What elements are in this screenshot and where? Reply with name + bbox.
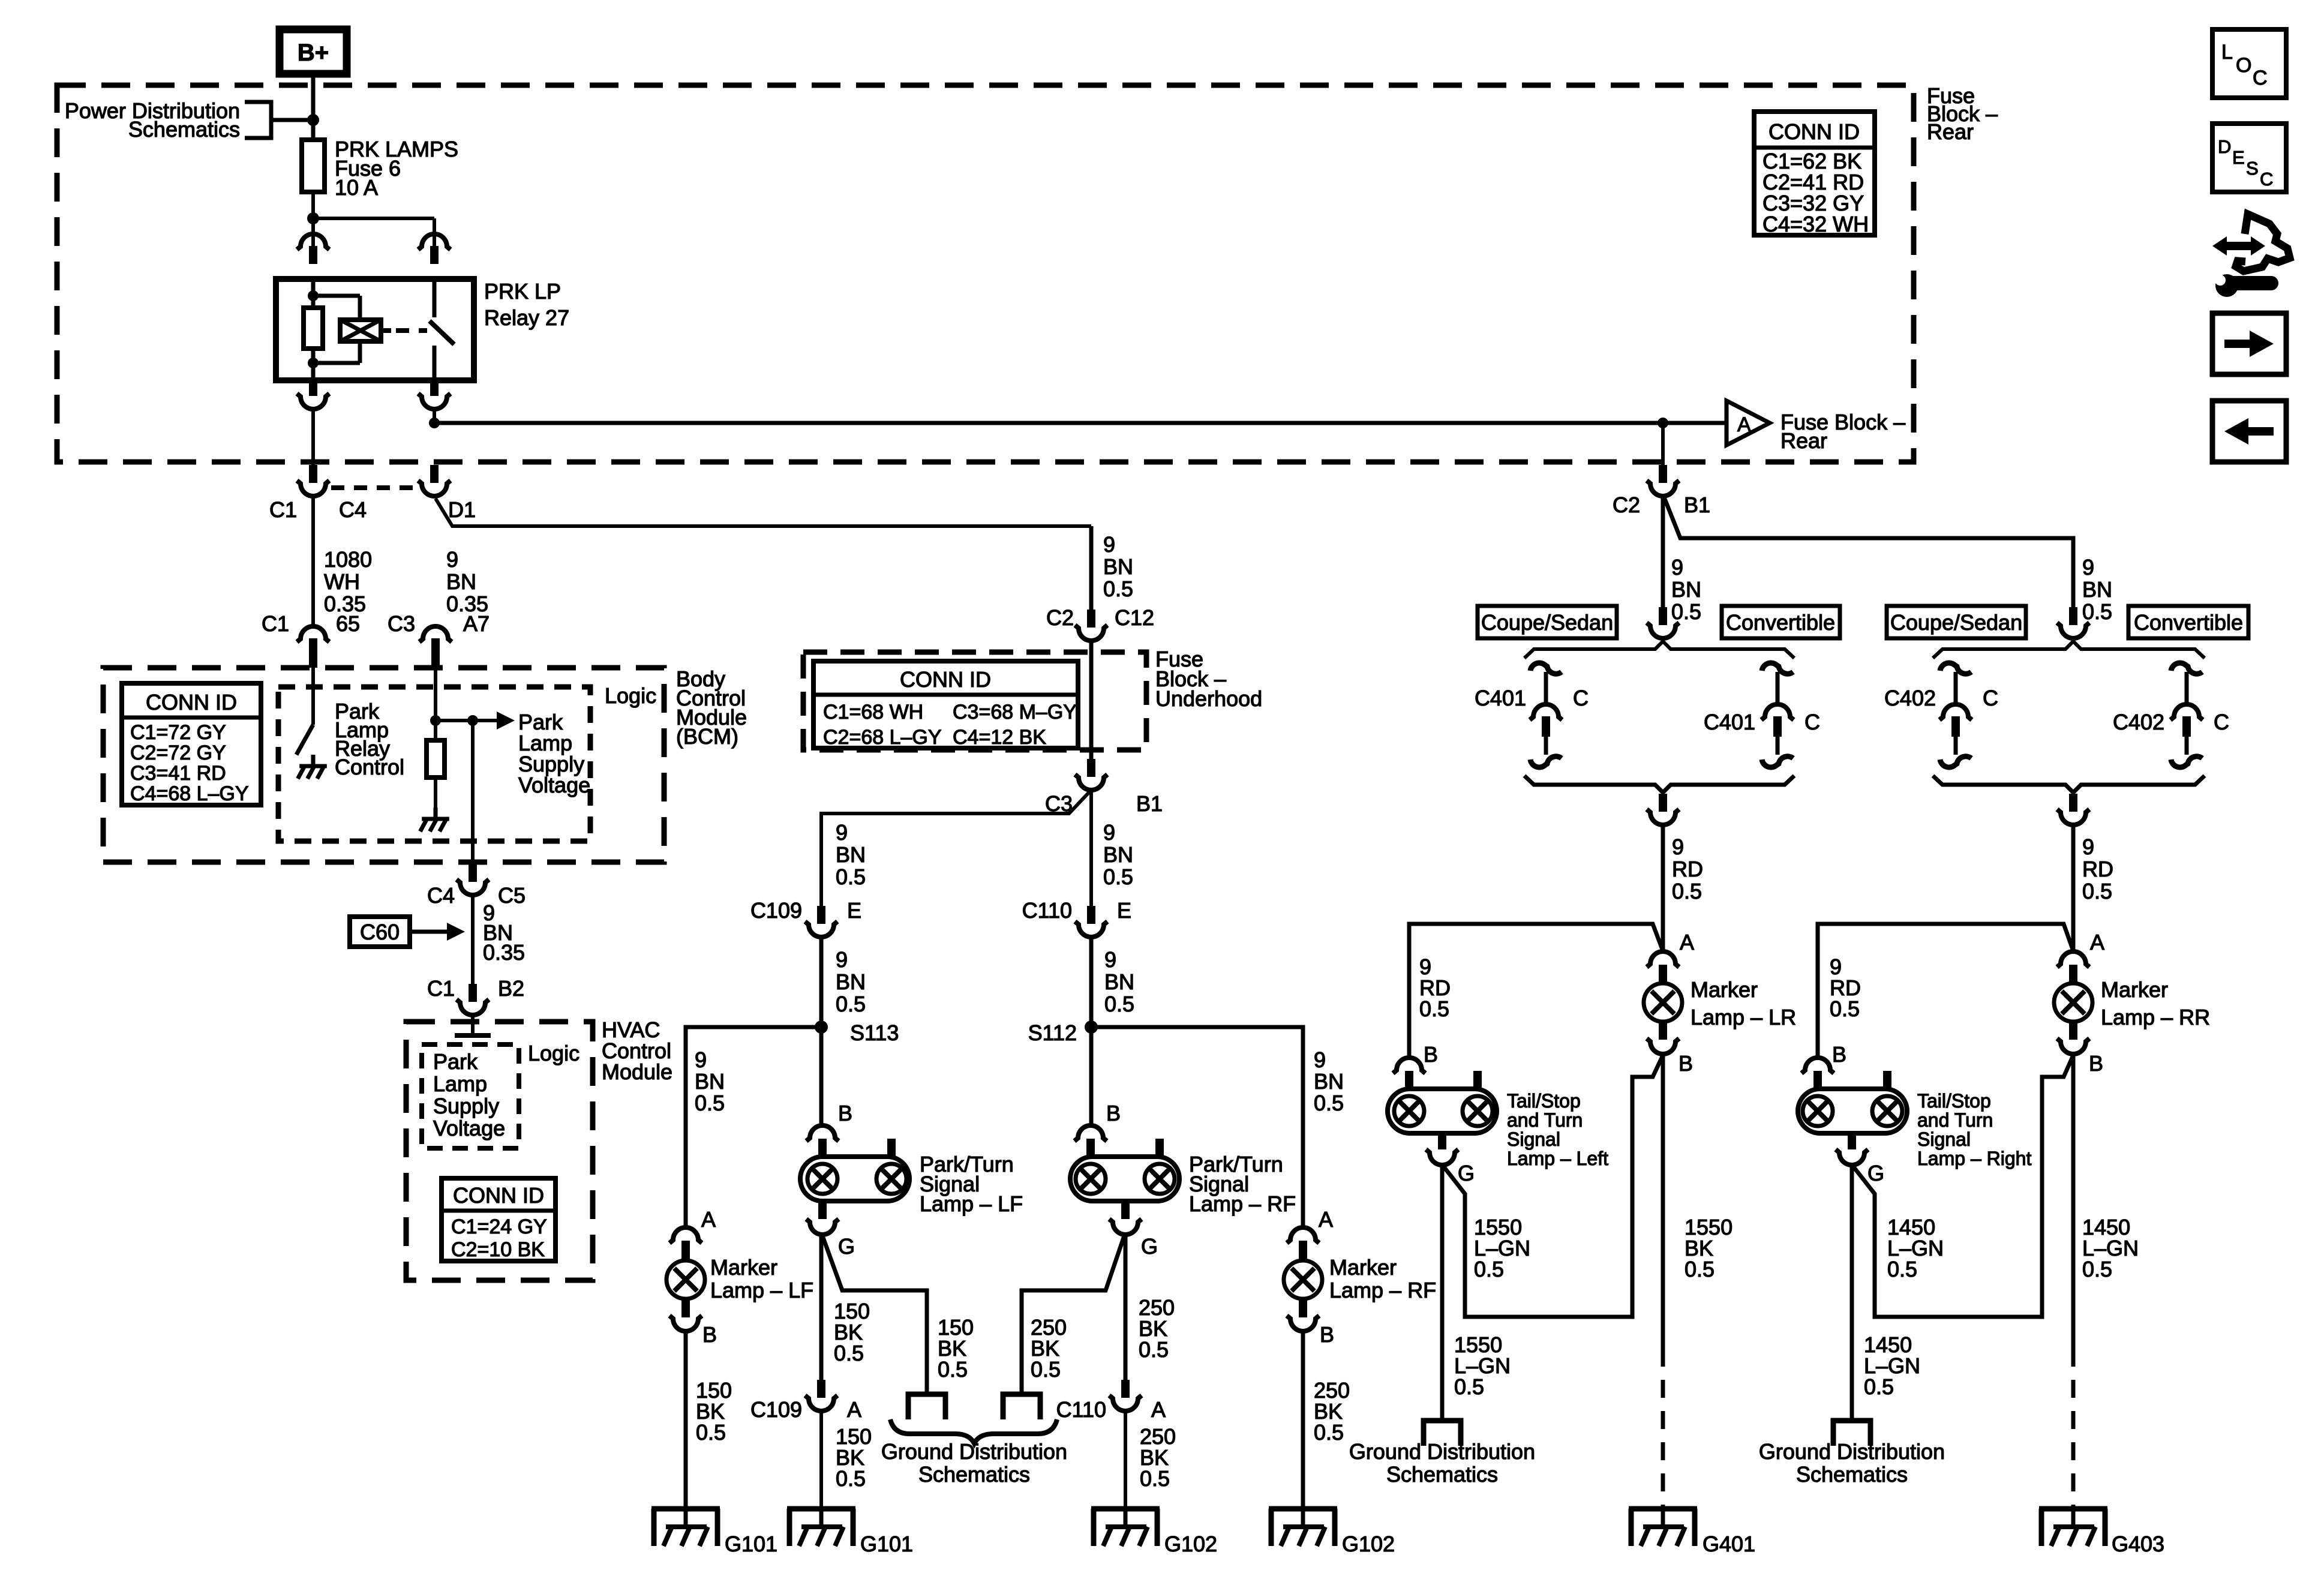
bracket ground distribution (tail right): [1833, 1421, 1870, 1446]
svg-text:Signal: Signal: [1917, 1128, 1971, 1150]
bracket ground distribution (tail left): [1424, 1421, 1461, 1446]
svg-text:BN: BN: [1103, 842, 1133, 867]
wire S113 to marker LF: [686, 1027, 821, 1229]
svg-text:B1: B1: [1136, 791, 1163, 816]
marker lamp RF: [1284, 1207, 1436, 1347]
svg-text:9: 9: [1314, 1047, 1326, 1072]
label: circuit 250 BK 0.5 (to G102): [1140, 1424, 1176, 1491]
wire marker RR to G403: [2071, 1056, 2076, 1509]
triangle pointer A: [1727, 401, 1770, 445]
label: Fuse Block - Rear (top right): [1927, 83, 1998, 144]
svg-text:B: B: [2089, 1051, 2103, 1076]
svg-text:C: C: [2260, 169, 2273, 190]
connector C1 pin 65: [262, 611, 360, 668]
connector C3 pin A7: [388, 611, 490, 668]
relay coil loop wires: [313, 296, 360, 363]
label: circuit 150 BK 0.5 (marker LF): [696, 1378, 732, 1445]
wire B+ down to fuse: [311, 74, 316, 140]
svg-text:B: B: [1320, 1322, 1334, 1347]
HVAC control module dashed box: [406, 1022, 593, 1280]
svg-text:Lamp – LR: Lamp – LR: [1691, 1005, 1796, 1029]
svg-text:Schematics: Schematics: [1386, 1462, 1498, 1487]
svg-text:Lamp – LF: Lamp – LF: [710, 1278, 813, 1302]
wire tail-left G to ground distribution: [1440, 1165, 1445, 1421]
svg-text:C: C: [1573, 686, 1589, 710]
sidebar icon diagnostic (arrows and wrench): [2211, 214, 2290, 297]
svg-text:0.5: 0.5: [2082, 1257, 2112, 1281]
label: Logic (HVAC): [528, 1041, 580, 1065]
svg-text:S112: S112: [1028, 1020, 1077, 1045]
svg-text:Ground Distribution: Ground Distribution: [881, 1439, 1067, 1464]
svg-text:C1=72 GY: C1=72 GY: [130, 721, 226, 744]
svg-text:9: 9: [1104, 947, 1116, 972]
bracket to power distribution: [245, 102, 310, 138]
svg-text:E: E: [2232, 147, 2245, 168]
svg-text:RD: RD: [2082, 857, 2113, 881]
svg-text:Ground Distribution: Ground Distribution: [1759, 1439, 1945, 1464]
wire down to marker LR: [1661, 825, 1665, 954]
svg-text:9: 9: [836, 820, 848, 845]
svg-text:0.5: 0.5: [836, 864, 866, 889]
inline connector C401 (coupe/sedan): [1475, 663, 1589, 767]
svg-text:C1=68 WH: C1=68 WH: [823, 701, 923, 724]
connector C109 pin A: [750, 1380, 861, 1422]
arrow park lamp supply voltage: [497, 712, 515, 730]
wire marker RF to G102: [1301, 1331, 1305, 1509]
CONN ID table - HVAC: [442, 1178, 556, 1261]
wire BCM to HVAC: [471, 895, 475, 984]
wire feed tail lamp left: [1409, 924, 1663, 1059]
bracket to ground distribution (C110): [1003, 1394, 1040, 1419]
wire C110 to S112 to lamp: [1089, 937, 1094, 1127]
sidebar icon arrow left: [2212, 401, 2286, 462]
svg-text:Convertible: Convertible: [1726, 610, 1835, 635]
wire relay out right to junction: [433, 410, 436, 423]
wire tail-left G loop to marker LR B: [1443, 1055, 1663, 1317]
wire fuse to relay pins: [313, 192, 434, 247]
label: circuit 9 BN 0.5 (C2): [1671, 555, 1701, 624]
connector C1 / B2: [427, 976, 524, 1015]
label: circuit 150 BK 0.5 (grd dist): [938, 1315, 974, 1382]
svg-text:Marker: Marker: [2101, 977, 2168, 1002]
sidebar icon DESC: [2212, 124, 2286, 192]
connector C4 / C5: [427, 864, 526, 908]
wire tail-right G loop to marker RR B: [1853, 1055, 2073, 1317]
svg-text:Schematics: Schematics: [1796, 1462, 1908, 1487]
park lamp relay control switch: [296, 668, 313, 755]
label: circuit 1550 L-GN 0.5 (loop): [1474, 1215, 1530, 1281]
wire marker LR to G401: [1661, 1056, 1665, 1509]
svg-text:C3: C3: [388, 611, 415, 636]
svg-text:L: L: [2221, 41, 2233, 64]
svg-text:C1=24 GY: C1=24 GY: [451, 1215, 547, 1238]
relay coil out wire: [311, 363, 316, 380]
wire C109 to S113 to lamp: [819, 937, 824, 1127]
junction dot (supply out): [467, 715, 478, 726]
svg-text:Underhood: Underhood: [1155, 686, 1262, 711]
BCM outer dashed box: [103, 668, 664, 862]
svg-text:C4=68 L–GY: C4=68 L–GY: [130, 782, 249, 805]
svg-text:C4: C4: [339, 497, 367, 522]
relay coil feed wire: [311, 279, 316, 299]
wire supply voltage down: [471, 721, 475, 864]
label: circuit 1450 L-GN 0.5 (marker RR): [2082, 1215, 2139, 1281]
svg-text:C12: C12: [1115, 605, 1154, 630]
svg-text:G102: G102: [1342, 1532, 1395, 1556]
svg-text:A: A: [2090, 930, 2104, 954]
wire into HVAC terminal: [455, 1015, 491, 1035]
svg-text:C2=68 L–GY: C2=68 L–GY: [823, 726, 942, 749]
svg-text:BN: BN: [695, 1069, 725, 1094]
svg-text:Tail/Stop: Tail/Stop: [1917, 1090, 1991, 1112]
svg-text:C: C: [2253, 67, 2268, 89]
svg-text:Relay 27: Relay 27: [484, 305, 569, 330]
svg-text:PRK LP: PRK LP: [484, 279, 561, 304]
svg-text:Logic: Logic: [528, 1041, 580, 1065]
svg-text:D1: D1: [448, 497, 476, 522]
HVAC logic inner dashed box: [422, 1044, 519, 1148]
svg-text:Module: Module: [602, 1059, 672, 1084]
curly brace ground distribution: [890, 1419, 1057, 1443]
relay 27 top pin connectors: [297, 234, 451, 264]
svg-text:9: 9: [1672, 834, 1684, 859]
svg-text:B2: B2: [498, 976, 524, 1001]
svg-text:0.5: 0.5: [1103, 864, 1133, 889]
C60 reference box: [350, 917, 465, 947]
ground G101 (marker LF): [651, 1509, 777, 1556]
svg-text:9: 9: [1103, 820, 1115, 845]
wire LF lamp G to ground distribution: [822, 1236, 927, 1394]
label: circuit 9 BN 0.5 (right drop): [1103, 820, 1133, 889]
svg-text:0.5: 0.5: [1419, 996, 1449, 1021]
svg-text:B+: B+: [298, 40, 329, 66]
junction dot below fuse: [307, 212, 319, 224]
svg-text:G102: G102: [1164, 1532, 1217, 1556]
wire 1080 WH to BCM: [311, 497, 315, 625]
svg-text:G: G: [1141, 1234, 1158, 1259]
ground G401: [1629, 1509, 1755, 1556]
connector C109 pin E: [750, 898, 861, 937]
svg-text:G403: G403: [2112, 1532, 2164, 1556]
svg-text:0.5: 0.5: [1474, 1257, 1504, 1281]
svg-text:10 A: 10 A: [335, 175, 378, 200]
label: circuit 9 BN 0.5 (to S113): [836, 947, 866, 1016]
connector C3 / B1 (underhood): [1045, 759, 1163, 816]
relay junction dot top: [308, 290, 319, 301]
svg-text:C: C: [1983, 686, 1998, 710]
split top line (right pair): [1933, 607, 2205, 658]
relay coil winding box: [340, 320, 391, 341]
label: circuit 9 RD 0.5 (right): [2082, 834, 2113, 903]
svg-text:Control: Control: [335, 755, 404, 779]
wire relay out left: [311, 410, 315, 465]
svg-text:9: 9: [1103, 532, 1115, 557]
svg-text:and Turn: and Turn: [1507, 1109, 1583, 1131]
wire D1 jog to underhood: [436, 499, 1091, 611]
svg-text:Coupe/Sedan: Coupe/Sedan: [1890, 610, 2022, 635]
label: circuit 1550 L-GN 0.5 (to grd dist): [1454, 1332, 1511, 1399]
label: circuit 150 BK 0.5 (above C109-A): [834, 1299, 870, 1365]
svg-text:C109: C109: [750, 898, 802, 923]
label: Fuse Block - Rear (at A): [1780, 410, 1905, 453]
svg-text:(BCM): (BCM): [676, 724, 738, 749]
junction dot at C2 drop: [1658, 418, 1668, 428]
label: circuit 9 BN 0.35 (BCM-HVAC): [483, 900, 525, 965]
svg-text:C2: C2: [1613, 493, 1640, 517]
svg-text:C402: C402: [1884, 686, 1936, 710]
marker lamp LF: [666, 1207, 813, 1347]
wire C3 into logic: [434, 668, 437, 721]
svg-text:Lamp – Left: Lamp – Left: [1507, 1148, 1608, 1169]
svg-text:Rear: Rear: [1927, 119, 1974, 144]
wire C110-A to G102: [1124, 1411, 1127, 1509]
svg-text:S: S: [2246, 158, 2259, 179]
bracket to ground distribution (C109): [908, 1394, 945, 1419]
svg-text:CONN ID: CONN ID: [1768, 119, 1860, 144]
label: circuit 1550 BK 0.5: [1685, 1215, 1733, 1281]
label: Ground Distribution Schematics (center): [881, 1439, 1067, 1487]
label: circuit 1080 WH 0.35: [324, 547, 372, 616]
svg-text:C401: C401: [1704, 710, 1755, 734]
split bottom line (right pair): [1933, 776, 2205, 825]
svg-text:Coupe/Sedan: Coupe/Sedan: [1481, 610, 1613, 635]
connector C110 pin A: [1056, 1380, 1166, 1422]
label: Park Lamp Relay Control: [335, 699, 404, 779]
svg-text:D: D: [2218, 136, 2231, 157]
wire tail-right G to ground distribution: [1850, 1165, 1854, 1421]
svg-text:WH: WH: [324, 569, 360, 594]
sidebar icon arrow right: [2212, 313, 2286, 374]
svg-text:0.5: 0.5: [836, 1466, 866, 1491]
power terminal B+: [280, 29, 347, 74]
svg-text:0.5: 0.5: [1140, 1466, 1170, 1491]
wire C109-A to G101: [819, 1411, 823, 1509]
svg-text:C1: C1: [427, 976, 455, 1001]
inline connector C402 (convertible): [2113, 663, 2229, 767]
svg-text:G101: G101: [860, 1532, 913, 1556]
svg-text:Ground Distribution: Ground Distribution: [1349, 1439, 1535, 1464]
relay coil resistor: [304, 299, 323, 358]
label: circuit 9 BN 0.5 (B1): [2082, 555, 2112, 624]
label: circuit 1450 L-GN 0.5 (loop): [1887, 1215, 1944, 1281]
svg-text:A: A: [1737, 413, 1751, 436]
svg-text:C4=32 WH: C4=32 WH: [1762, 212, 1869, 236]
label: HVAC Control Module: [602, 1017, 672, 1084]
svg-text:9: 9: [446, 547, 458, 572]
svg-text:0.35: 0.35: [483, 940, 525, 965]
svg-text:E: E: [847, 898, 861, 923]
svg-text:BN: BN: [446, 569, 476, 594]
connector C2 / C12: [1046, 605, 1154, 641]
svg-text:0.5: 0.5: [1104, 992, 1134, 1016]
svg-text:C402: C402: [2113, 710, 2164, 734]
wire B1 to right split: [1664, 497, 2073, 608]
variant box Convertible (right): [2128, 606, 2248, 638]
svg-text:C60: C60: [360, 920, 400, 944]
svg-text:0.5: 0.5: [938, 1357, 968, 1382]
fuse block underhood dashed box: [803, 652, 1146, 750]
svg-text:C4=12 BK: C4=12 BK: [953, 726, 1046, 749]
sidebar icon LOC: [2212, 29, 2286, 98]
svg-text:Convertible: Convertible: [2134, 610, 2243, 635]
CONN ID table - BCM: [122, 683, 261, 805]
wire LF lamp G to C109-A: [819, 1235, 824, 1380]
svg-text:A: A: [1680, 930, 1694, 954]
label: circuit 250 BK 0.5 (marker RF): [1314, 1378, 1350, 1445]
svg-text:0.5: 0.5: [1672, 879, 1702, 903]
svg-text:B: B: [1106, 1101, 1121, 1125]
svg-text:Lamp – Right: Lamp – Right: [1917, 1148, 2031, 1169]
BCM pull resistor: [427, 721, 445, 807]
svg-text:G101: G101: [725, 1532, 777, 1556]
svg-text:C110: C110: [1056, 1397, 1106, 1422]
wire feed tail lamp right: [1818, 924, 2073, 1059]
svg-text:0.5: 0.5: [1314, 1091, 1344, 1115]
svg-text:0.5: 0.5: [1830, 996, 1860, 1021]
wire C2 down to coupe/sedan split: [1661, 496, 1665, 608]
svg-text:C: C: [2214, 710, 2229, 734]
tail/stop and turn signal lamp - right: [1798, 1042, 2031, 1185]
svg-text:C2=10 BK: C2=10 BK: [451, 1238, 545, 1261]
relay PRK LP Relay 27 box: [276, 279, 474, 380]
connector row C1-C4 / D1: [269, 465, 476, 522]
label: circuit 9 BN 0.35 (D1): [446, 547, 488, 616]
svg-text:0.5: 0.5: [1864, 1374, 1894, 1399]
svg-text:G: G: [1867, 1161, 1884, 1185]
wire to C109 branch: [821, 791, 1090, 906]
svg-text:Signal: Signal: [1507, 1128, 1560, 1150]
inline connector C402 (coupe/sedan): [1884, 663, 1998, 767]
wire C12 into underhood box: [1089, 641, 1094, 759]
label: circuit 9 BN 0.5 (marker LF): [695, 1047, 725, 1115]
svg-text:0.5: 0.5: [1139, 1337, 1169, 1362]
label: circuit 9 BN 0.5 (marker RF): [1314, 1047, 1344, 1115]
svg-text:C3=68 M–GY: C3=68 M–GY: [953, 701, 1077, 724]
svg-text:BN: BN: [2082, 577, 2112, 602]
label: Park Lamp Supply Voltage (HVAC): [433, 1049, 505, 1140]
svg-text:9: 9: [2082, 834, 2094, 859]
svg-text:C401: C401: [1475, 686, 1526, 710]
svg-text:BN: BN: [836, 842, 866, 867]
svg-text:A: A: [1319, 1207, 1333, 1232]
label: circuit 9 BN 0.5 (to S112): [1104, 947, 1134, 1016]
CONN ID table - fuse block underhood: [813, 661, 1078, 749]
CONN ID table - fuse block rear: [1754, 112, 1875, 236]
label: circuit 9 RD 0.5 (tail left): [1419, 954, 1451, 1021]
relay 27 bottom pin connectors: [297, 380, 451, 409]
svg-text:A7: A7: [463, 611, 490, 636]
label: circuit 250 BK 0.5 (grd dist): [1031, 1315, 1067, 1382]
svg-text:B: B: [1424, 1042, 1438, 1067]
wire S112 to marker RF: [1091, 1027, 1303, 1229]
svg-text:RD: RD: [1672, 857, 1703, 881]
label: Ground Distribution Schematics (right): [1759, 1439, 1945, 1487]
wire marker LF to G101: [684, 1331, 688, 1509]
svg-text:0.5: 0.5: [1031, 1357, 1061, 1382]
park/turn signal lamp LF: [800, 1101, 1023, 1259]
svg-text:Lamp – RF: Lamp – RF: [1329, 1278, 1436, 1302]
svg-text:and Turn: and Turn: [1917, 1109, 1993, 1131]
label: Park Lamp Supply Voltage (BCM): [518, 710, 590, 797]
label: Fuse Block - Underhood: [1155, 647, 1262, 711]
svg-text:Lamp: Lamp: [433, 1071, 487, 1096]
svg-text:C3=41 RD: C3=41 RD: [130, 762, 226, 785]
svg-text:C2=72 GY: C2=72 GY: [130, 742, 226, 764]
relay junction dot bottom: [308, 358, 319, 368]
split top line (left pair): [1524, 607, 1794, 658]
fuse PRK LAMPS Fuse 6 10A: [302, 137, 458, 200]
svg-text:A: A: [1151, 1397, 1166, 1422]
svg-text:65: 65: [336, 611, 360, 636]
label: circuit 9 RD 0.5 (tail right): [1830, 954, 1861, 1021]
ground G102 (lamp): [1091, 1509, 1217, 1556]
label: Ground Distribution Schematics (left): [1349, 1439, 1535, 1487]
park/turn signal lamp RF: [1070, 1101, 1296, 1259]
svg-text:B: B: [1832, 1042, 1846, 1067]
svg-text:0.5: 0.5: [1685, 1257, 1715, 1281]
splice S112: [1028, 1020, 1098, 1045]
svg-text:9: 9: [1671, 555, 1683, 580]
long bus wire to fuse block rear: [434, 421, 1727, 425]
ground G101 (lamp): [787, 1509, 913, 1556]
svg-text:Rear: Rear: [1780, 428, 1827, 453]
label: circuit 250 BK 0.5 (above C110-A): [1139, 1295, 1175, 1362]
svg-text:C110: C110: [1022, 898, 1072, 923]
svg-text:CONN ID: CONN ID: [453, 1183, 544, 1208]
ground G102 (marker RF): [1269, 1509, 1395, 1556]
svg-text:Voltage: Voltage: [433, 1116, 505, 1140]
svg-text:Marker: Marker: [1329, 1255, 1397, 1280]
svg-text:Tail/Stop: Tail/Stop: [1507, 1090, 1581, 1112]
svg-text:E: E: [1117, 898, 1131, 923]
svg-text:A: A: [701, 1207, 716, 1232]
ground fork (BCM resistor): [420, 807, 449, 831]
svg-text:BN: BN: [1103, 554, 1133, 579]
marker lamp RR: [2054, 930, 2210, 1076]
svg-text:B: B: [838, 1101, 852, 1125]
svg-text:0.5: 0.5: [696, 1420, 726, 1445]
svg-text:CONN ID: CONN ID: [146, 690, 237, 715]
svg-text:B: B: [702, 1322, 717, 1347]
label: circuit 1450 L-GN 0.5 (to grd dist): [1864, 1332, 1920, 1399]
svg-text:C: C: [1804, 710, 1820, 734]
label: circuit 9 RD 0.5 (left): [1672, 834, 1703, 903]
wire RF lamp G to C110-A: [1124, 1235, 1128, 1380]
connector C2 / B1 (fuse block rear): [1613, 465, 1710, 517]
wire to supply-voltage arrow: [436, 719, 503, 722]
tail/stop and turn signal lamp - left: [1388, 1042, 1608, 1185]
label: circuit 150 BK 0.5 (to G101): [836, 1424, 872, 1491]
svg-text:BN: BN: [1671, 577, 1701, 602]
svg-text:9: 9: [2082, 555, 2094, 580]
svg-text:0.5: 0.5: [1454, 1374, 1484, 1399]
junction dot (supply sense): [430, 715, 441, 726]
svg-text:C109: C109: [750, 1397, 802, 1422]
wire to C110 branch: [1089, 790, 1093, 906]
svg-text:9: 9: [695, 1047, 707, 1072]
svg-text:C4: C4: [427, 883, 455, 908]
svg-text:0.5: 0.5: [1314, 1420, 1344, 1445]
svg-text:Lamp – RF: Lamp – RF: [1189, 1191, 1296, 1216]
svg-text:Voltage: Voltage: [518, 773, 590, 797]
marker lamp LR: [1644, 930, 1796, 1076]
svg-text:9: 9: [836, 947, 848, 972]
svg-text:0.5: 0.5: [2082, 599, 2112, 624]
svg-text:0.5: 0.5: [1103, 577, 1133, 601]
svg-text:Schematics: Schematics: [918, 1462, 1030, 1487]
svg-text:BN: BN: [1314, 1069, 1344, 1094]
wire down to C2-B1: [1661, 423, 1665, 465]
